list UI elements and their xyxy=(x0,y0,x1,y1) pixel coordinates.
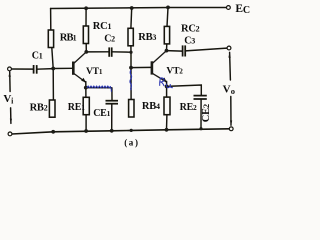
output arrow up xyxy=(228,52,230,57)
node ground RB4 xyxy=(130,129,133,132)
terminal output bottom xyxy=(229,127,233,131)
wire base lead VT2 xyxy=(131,66,151,68)
wire RC1 to collector node 1 xyxy=(85,44,87,52)
wire RB3 drop from rail xyxy=(130,8,133,28)
terminal input bottom xyxy=(8,132,12,136)
node emitter 1 xyxy=(84,86,88,90)
resistor RC2 xyxy=(164,26,169,44)
node rail RB3 xyxy=(130,6,134,10)
terminal EC supply xyxy=(227,6,231,10)
node base 1 xyxy=(51,67,55,71)
wire input port upper arrow segment xyxy=(9,72,11,92)
resistor RB3 xyxy=(128,28,133,46)
node ground CE2 xyxy=(199,127,202,130)
wire emitter node 1 to CE1 xyxy=(86,87,112,89)
transistor VT2 xyxy=(152,51,167,82)
capacitor CE1 xyxy=(106,101,119,104)
svg-text:VT1: VT1 xyxy=(86,66,103,77)
svg-text:C1: C1 xyxy=(32,51,43,62)
svg-text:RE1: RE1 xyxy=(68,102,85,113)
svg-text:EC: EC xyxy=(235,3,249,16)
wire RE2 bottom to rail xyxy=(166,115,168,130)
node ground RB2 xyxy=(51,130,55,134)
wire VT1 emitter vertical xyxy=(85,82,87,98)
svg-text:C2: C2 xyxy=(104,33,115,44)
node rail RC1 xyxy=(84,6,88,10)
wire input to C1 xyxy=(11,68,33,70)
wire RC1 drop from rail xyxy=(85,8,87,26)
svg-text:Vo: Vo xyxy=(223,83,235,95)
wire top supply rail xyxy=(51,8,229,9)
output arrow down xyxy=(230,120,232,125)
node base 2 xyxy=(129,66,133,70)
wire RC2 drop from rail xyxy=(167,7,168,26)
resistor RC1 xyxy=(83,26,88,44)
terminal input top xyxy=(8,67,12,71)
wire output port lower segment xyxy=(230,97,232,126)
svg-text:RC1: RC1 xyxy=(93,21,112,32)
capacitor C1 xyxy=(34,65,37,74)
wire RB3-RB4 vertical (base node 2) xyxy=(130,46,132,100)
wire CE2 bottom to rail xyxy=(200,99,202,128)
node emitter 2 xyxy=(165,85,169,89)
wire RB1 top drop xyxy=(50,9,52,31)
svg-text:RB2: RB2 xyxy=(30,103,48,114)
capacitor C2 xyxy=(109,47,112,56)
svg-text:RB1: RB1 xyxy=(60,32,77,43)
paper background xyxy=(0,0,250,152)
wire RC2 to collector node 2 xyxy=(166,44,168,51)
wire C3 to output terminal xyxy=(186,48,227,51)
capacitor CE2 xyxy=(194,96,207,99)
svg-text:CE2: CE2 xyxy=(201,104,212,122)
node rail RC2 xyxy=(166,6,170,10)
wire output port upper arrow segment xyxy=(229,52,232,80)
node collector 2 xyxy=(165,49,169,53)
wire CE1 top xyxy=(111,88,113,101)
svg-text:CE1: CE1 xyxy=(93,108,110,119)
resistor RB2 xyxy=(49,100,55,117)
resistor RB1 xyxy=(48,30,53,48)
wire C2 to stage2 bias vertical xyxy=(112,51,131,53)
node ground RE2 xyxy=(165,128,169,132)
blue pen mark on stage2 base vertical xyxy=(130,70,132,90)
terminal output top xyxy=(227,46,231,50)
input arrow down xyxy=(10,119,12,124)
wire C1 to base node xyxy=(37,68,53,71)
resistor RB4 xyxy=(129,100,134,118)
input arrow up xyxy=(9,71,11,76)
svg-text:RE2: RE2 xyxy=(180,102,197,113)
svg-text:RC2: RC2 xyxy=(181,23,200,34)
svg-text:VT2: VT2 xyxy=(166,65,183,76)
svg-text:RB3: RB3 xyxy=(138,32,156,43)
transistor VT1 xyxy=(73,52,86,82)
node ground RE1 xyxy=(84,129,88,133)
wire RE1 bottom to rail xyxy=(85,115,87,131)
wire CE1 bottom to rail xyxy=(111,104,113,131)
blue pen mark near VT2 emitter xyxy=(160,78,173,88)
wire base lead VT1 xyxy=(53,67,72,69)
wire emitter node 2 to CE2 xyxy=(167,85,202,95)
wire input port lower segment xyxy=(10,108,12,124)
wire ground bottom rail xyxy=(12,129,229,134)
svg-text:C3: C3 xyxy=(184,36,195,47)
node collector 1 xyxy=(84,50,88,54)
node C2 tap xyxy=(129,51,132,54)
wire VT2 emitter vertical xyxy=(166,81,168,97)
resistor RE2 xyxy=(164,97,170,115)
node junction dots xyxy=(51,6,202,134)
svg-text:RB4: RB4 xyxy=(142,101,160,112)
resistor RE1 xyxy=(83,97,89,114)
node ground CE1 xyxy=(110,129,114,133)
svg-text:(a): (a) xyxy=(124,137,138,147)
blue pen mark over emitter node 1 wire xyxy=(87,86,112,92)
wire RB1-RB2 vertical (base node 1) xyxy=(52,48,54,101)
wire collector node 2 to C3 xyxy=(167,50,183,53)
wire collector node 1 to C2 xyxy=(86,51,109,53)
capacitor C3 xyxy=(183,45,186,56)
